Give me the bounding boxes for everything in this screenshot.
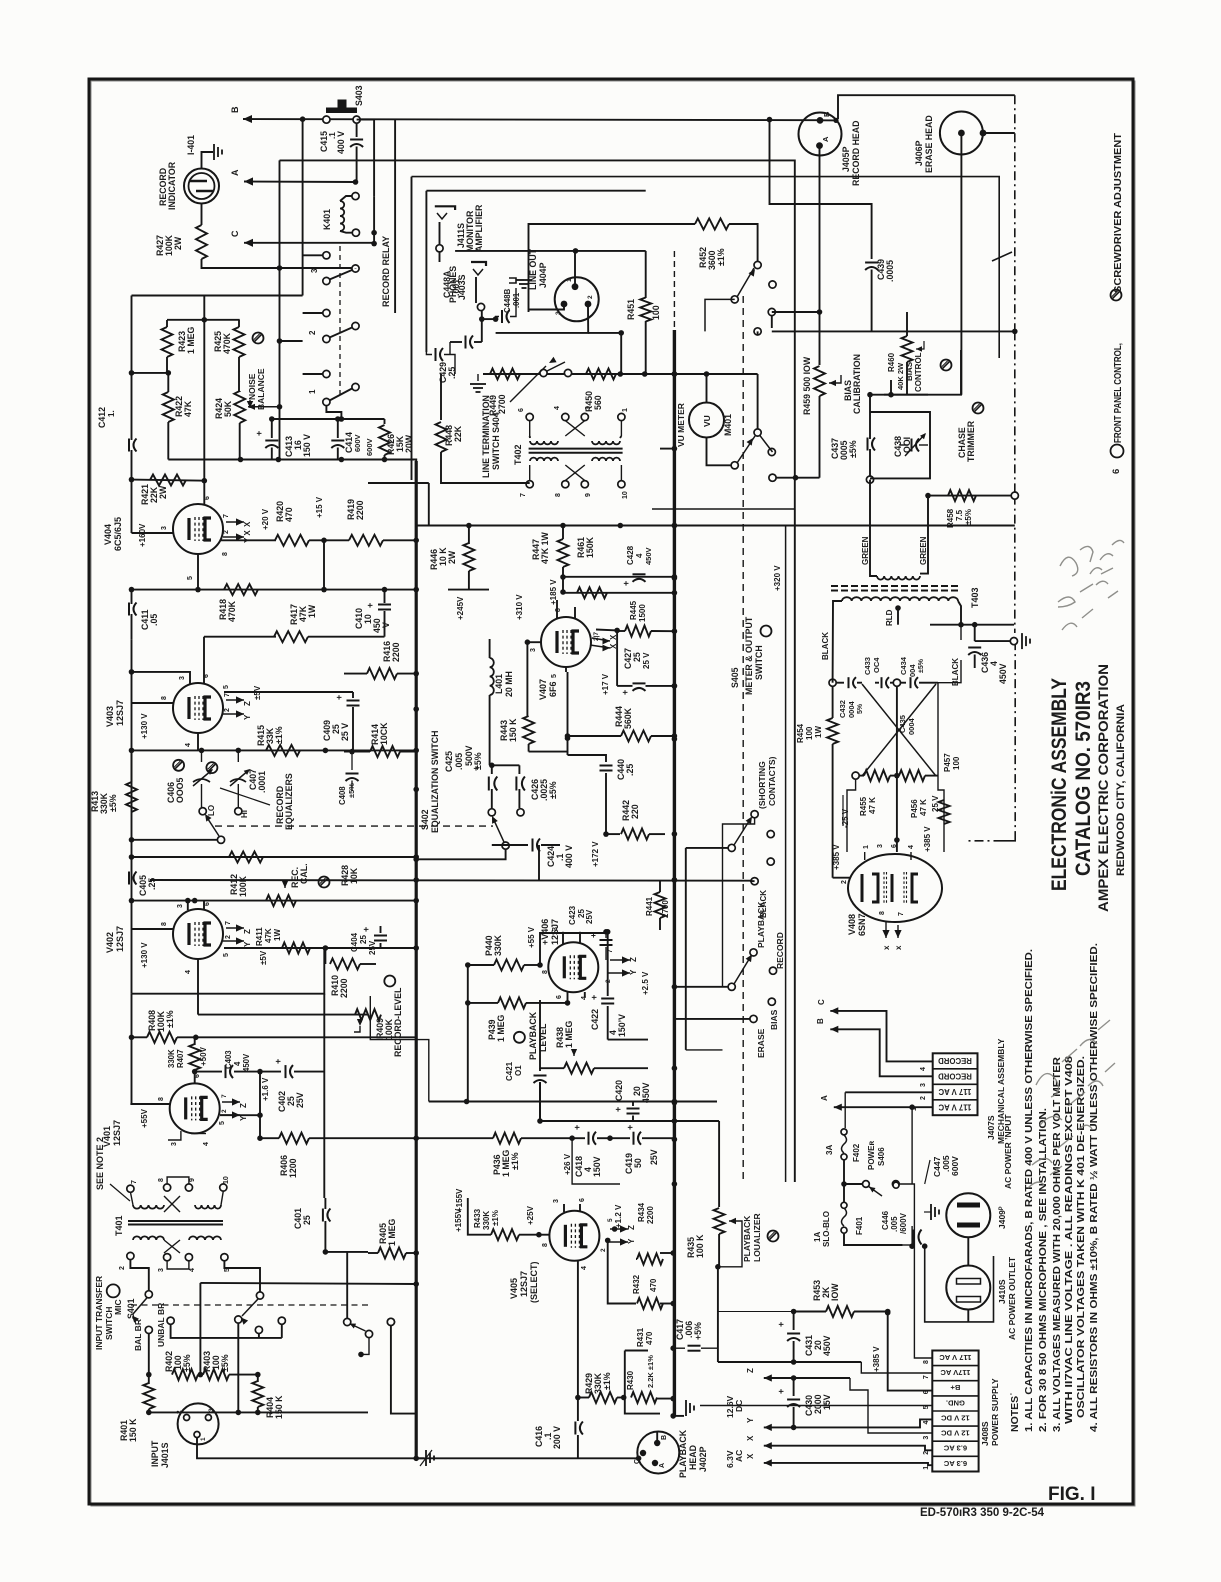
svg-text:5: 5 [187, 576, 194, 580]
screened enclosure dash-dot long vertical [1014, 496, 1016, 633]
svg-text:REDWOOD CITY, CALIFORNIA: REDWOOD CITY, CALIFORNIA [1115, 704, 1127, 876]
svg-text:150 K: 150 K [274, 1395, 284, 1419]
S405 wafer2 contacts [750, 949, 757, 956]
svg-text:117V AC: 117V AC [940, 1368, 971, 1377]
svg-text:12 V DC: 12 V DC [941, 1414, 970, 1423]
svg-text:+172 V: +172 V [591, 841, 600, 867]
wire rail y176 enclosure [412, 177, 1000, 358]
svg-text:Z: Z [243, 929, 252, 934]
ground [213, 144, 215, 160]
capacitor C423 25 25V [603, 929, 609, 935]
resistor R416 2200 [367, 668, 397, 679]
ground osc [1010, 638, 1017, 645]
capacitor C411 .05 [131, 590, 133, 604]
wire cathode to C440 [568, 755, 607, 762]
wire pin6 branch [194, 1072, 196, 1083]
svg-text:+1.6 V: +1.6 V [261, 1077, 270, 1101]
svg-text:/600V: /600V [899, 1212, 908, 1234]
svg-text:330K: 330K [167, 1049, 176, 1068]
svg-text:450V: 450V [641, 1082, 651, 1103]
T402 contacts bottom [526, 481, 533, 488]
wire x617 down [616, 630, 618, 686]
svg-text:12SJ7: 12SJ7 [115, 700, 125, 726]
dashed divider S402 [215, 825, 493, 827]
capacitor C422 4 150V [607, 933, 609, 996]
svg-text:+155V: +155V [454, 1208, 463, 1232]
svg-text:Z: Z [629, 957, 638, 962]
svg-text:12SJ7: 12SJ7 [112, 1120, 122, 1146]
svg-text:V408: V408 [847, 914, 857, 935]
wire J405P case [836, 119, 838, 121]
switch S404 contacts [540, 369, 547, 376]
svg-text:6: 6 [518, 408, 525, 412]
wire V402 grid pin8 [131, 901, 133, 994]
wire fuse F402 branch [844, 1092, 846, 1128]
T401 lower contacts [127, 1252, 134, 1259]
svg-text:.25: .25 [625, 764, 635, 776]
wire V404 plate top [203, 481, 205, 505]
wire J404P pin2 [496, 307, 589, 333]
svg-text:4: 4 [554, 406, 561, 410]
svg-text:2: 2 [119, 1266, 126, 1270]
svg-text:A: A [820, 1095, 829, 1101]
svg-text:150 K: 150 K [128, 1418, 138, 1442]
svg-text:+: + [471, 766, 481, 771]
svg-text:HEAD: HEAD [688, 1445, 698, 1470]
switch S403 pushbutton [326, 108, 357, 114]
capacitor C439 .0005 [865, 262, 878, 264]
resistor R426 15K 20W [384, 419, 386, 424]
svg-text:K401: K401 [322, 209, 332, 230]
svg-text:20 MH: 20 MH [504, 671, 514, 697]
svg-text:I-401: I-401 [186, 135, 196, 155]
svg-text:7.5: 7.5 [955, 509, 964, 521]
svg-text:C404: C404 [350, 932, 359, 952]
wire osc row y624 [930, 624, 1014, 626]
resistor R419 2200 [349, 535, 383, 546]
capacitor C420 20 450V [632, 1102, 634, 1107]
svg-text:.25: .25 [447, 367, 457, 379]
wire V403 pin5 [224, 691, 353, 693]
svg-text:R434: R434 [637, 1202, 646, 1222]
svg-text:±5V: ±5V [253, 685, 262, 700]
svg-text:METER & OUTPUT: METER & OUTPUT [744, 616, 754, 695]
svg-text:220: 220 [630, 804, 640, 819]
svg-text:+55 V: +55 V [527, 926, 536, 948]
svg-text:117 V AC: 117 V AC [938, 1103, 971, 1112]
svg-text:V403: V403 [105, 706, 115, 727]
svg-text:R431: R431 [636, 1327, 645, 1347]
svg-text:1: 1 [308, 389, 317, 394]
svg-text:3: 3 [552, 927, 559, 931]
svg-text:+: + [589, 995, 599, 1000]
svg-text:3: 3 [877, 844, 884, 848]
resistor R442 220 [621, 829, 649, 840]
svg-text:X: X [746, 1453, 755, 1459]
S402 switch arm [502, 842, 509, 849]
svg-text:1: 1 [566, 278, 573, 282]
svg-text:R454: R454 [796, 723, 805, 743]
svg-text:R459 500 IOW: R459 500 IOW [802, 356, 812, 415]
resistor R406 1200 [279, 1133, 309, 1144]
svg-text:ELECTRONiC ASSEMBLY: ELECTRONiC ASSEMBLY [1047, 678, 1071, 891]
svg-text:TRIMMER: TRIMMER [966, 420, 976, 462]
svg-text:3: 3 [177, 904, 184, 908]
resistor R403 100 5% [203, 1369, 229, 1380]
svg-text:25V: 25V [585, 909, 594, 924]
svg-text:470: 470 [649, 1278, 658, 1292]
wire J404P pin3 [529, 307, 565, 310]
inductor L401 20MH [489, 639, 491, 658]
node B arrow [243, 115, 252, 123]
resistor R404 150K [257, 1375, 259, 1382]
svg-text:C448B: C448B [503, 288, 512, 313]
svg-text:LO: LO [207, 805, 216, 816]
svg-text:SWITCH S404: SWITCH S404 [491, 412, 501, 470]
capacitor C432 0004 [836, 682, 844, 684]
wire left rail x131 [131, 640, 133, 901]
resistor R457 100 [939, 800, 950, 824]
svg-text:10: 10 [223, 1176, 230, 1184]
svg-text:RECORD-LEVEL: RECORD-LEVEL [393, 987, 403, 1057]
connector J401S input [178, 1403, 219, 1444]
node C arrow [244, 239, 253, 247]
T401 core [128, 1220, 223, 1222]
connector J405P record head [799, 113, 842, 156]
svg-text:.0005: .0005 [885, 260, 895, 282]
svg-text:C: C [230, 230, 240, 237]
svg-text:R430: R430 [626, 1370, 635, 1390]
wire x260 cathode net [259, 1072, 261, 1139]
svg-text:T402: T402 [513, 444, 523, 465]
svg-text:+: + [334, 695, 344, 700]
screwdriver adj noise balance [253, 333, 264, 344]
capacitor C419 50 25V [633, 1132, 635, 1145]
wire green winding [920, 496, 928, 574]
wire V403 pin6 top [203, 637, 205, 683]
capacitor C410 10 450V [384, 590, 386, 603]
svg-text:47 K: 47 K [919, 799, 928, 816]
wire V403 pin3 top [132, 672, 191, 684]
svg-text:3: 3 [585, 406, 592, 410]
svg-text:+: + [365, 603, 375, 608]
wire bottom rail to head [636, 1456, 642, 1462]
T402 bottom crossing [565, 465, 585, 481]
wire y880 long rail [150, 879, 755, 882]
wire y1037 to right [196, 1036, 416, 1038]
svg-text:6: 6 [194, 1074, 201, 1078]
svg-text:J404P: J404P [538, 262, 548, 288]
resistor R408 100K 1% [147, 1032, 177, 1043]
wire ground rail y1412 [149, 1411, 368, 1413]
svg-text:CALIBRATION: CALIBRATION [852, 354, 862, 414]
resistor R413 330K 5% [131, 750, 133, 782]
svg-text:Z: Z [243, 701, 252, 706]
meter M401 VU [689, 403, 724, 438]
capacitor C448A .001 [481, 311, 483, 342]
svg-text:5: 5 [223, 685, 230, 689]
wire RLD tap [895, 605, 901, 611]
svg-text:10CK: 10CK [379, 722, 389, 745]
svg-text:6: 6 [204, 902, 211, 906]
T403 core dashed [831, 585, 961, 587]
svg-text:25: 25 [632, 652, 642, 662]
resistor R440 330K [494, 960, 524, 971]
svg-text:+310 V: +310 V [515, 594, 524, 620]
svg-text:8: 8 [555, 493, 562, 497]
svg-text:2: 2 [224, 708, 231, 712]
svg-text:+17 V: +17 V [601, 673, 610, 695]
svg-text:C: C [817, 999, 826, 1005]
wire rail y190 inner box [426, 190, 645, 192]
svg-text:M401: M401 [723, 414, 733, 436]
svg-text:+385 V: +385 V [832, 844, 841, 870]
svg-text:AC POWER OUTLET: AC POWER OUTLET [1007, 1256, 1017, 1340]
wire meter VU [706, 374, 708, 403]
T401 lower crossing [164, 1240, 180, 1253]
capacitor C408 5% [351, 752, 353, 770]
svg-text:+15 V: +15 V [315, 496, 324, 518]
svg-text:FIG. I: FIG. I [1048, 1484, 1096, 1505]
resistor R427 100K 2W [201, 204, 203, 226]
svg-text:HI: HI [240, 810, 249, 818]
wire R450 to bus [616, 373, 674, 375]
svg-text:+: + [613, 1107, 623, 1112]
svg-text:ED-570ıR3 350 9-2C-54: ED-570ıR3 350 9-2C-54 [920, 1507, 1045, 1519]
svg-text:600V: 600V [950, 1156, 960, 1176]
svg-text:450V: 450V [644, 547, 653, 565]
resistor R414 100K [370, 746, 400, 757]
svg-text:INPUT: INPUT [150, 1440, 160, 1467]
svg-text:3: 3 [208, 1408, 215, 1412]
wire R453 left branch [718, 1311, 794, 1313]
svg-text:25 V: 25 V [642, 652, 651, 669]
svg-text:2700: 2700 [497, 394, 507, 414]
svg-text:UNBAL BR: UNBAL BR [156, 1303, 166, 1347]
capacitor C434 004 [900, 682, 906, 684]
svg-text:1500: 1500 [638, 604, 647, 622]
T402 lower coils [530, 458, 558, 461]
wire vertical feed [302, 119, 304, 295]
svg-text:150V: 150V [592, 1156, 602, 1177]
svg-text:1: 1 [200, 1437, 207, 1441]
svg-text:2: 2 [841, 880, 848, 884]
outlet box [925, 1245, 994, 1322]
wire V405 top pins [563, 1204, 565, 1212]
svg-text:C446: C446 [881, 1210, 890, 1230]
svg-text:Y: Y [629, 969, 638, 975]
svg-text:±5%: ±5% [964, 509, 973, 525]
capacitor C426 .0025 5% [492, 764, 520, 766]
capacitor C412 1 [131, 296, 133, 441]
wire R460 bias control box [890, 380, 892, 395]
svg-text:2: 2 [221, 1109, 228, 1113]
tube V405 12SJ7 select [549, 1211, 599, 1261]
svg-text:±5V: ±5V [259, 950, 268, 965]
svg-text:2.2K ±1%: 2.2K ±1% [646, 1355, 655, 1388]
svg-text:2: 2 [223, 530, 230, 534]
svg-text:±5%: ±5% [548, 781, 558, 799]
svg-text:6: 6 [204, 496, 211, 500]
svg-text:J410S: J410S [997, 1279, 1007, 1304]
playback equalizer R435 [718, 1198, 720, 1207]
capacitor C427 25 25V [617, 685, 632, 687]
svg-text:3. ALL VOLTAGES MEASURED WITH: 3. ALL VOLTAGES MEASURED WITH 20,000 OHM… [1052, 1057, 1063, 1432]
svg-text:F401: F401 [855, 1216, 864, 1235]
svg-text:12SJ7: 12SJ7 [519, 1271, 529, 1297]
svg-text:25: 25 [302, 1215, 312, 1225]
resistor R444 560K [565, 733, 571, 739]
resistor R412 100K [229, 852, 263, 863]
thick bus vertical x674 [673, 330, 676, 1416]
svg-text:+: + [254, 431, 264, 436]
thick bus x416 [415, 461, 418, 1458]
resistor R450 560 [586, 369, 616, 380]
svg-text:Y: Y [746, 1417, 755, 1423]
svg-text:8: 8 [555, 608, 562, 612]
svg-text:ERASE HEAD: ERASE HEAD [924, 115, 934, 173]
svg-text:Y: Y [243, 714, 252, 720]
trimmer C406 0005 LO [173, 760, 184, 771]
resistor R430 2.2K 1% [631, 1392, 657, 1403]
meter switch arm [737, 436, 755, 463]
bias selector contacts [754, 261, 761, 268]
svg-text:BIAS: BIAS [769, 1009, 779, 1030]
capacitor C418 4 150V [588, 1132, 590, 1145]
svg-text:J401S: J401S [160, 1442, 170, 1468]
resistor R402 100 5% [172, 1369, 198, 1380]
svg-text:VU: VU [702, 415, 712, 427]
svg-text:R433: R433 [473, 1208, 482, 1228]
wire line-out feed [455, 250, 646, 252]
svg-text:+130 V: +130 V [140, 713, 149, 739]
svg-text:RECORD: RECORD [775, 932, 785, 969]
wire erase head down [960, 133, 962, 395]
wire S406 to pin8 [899, 1184, 932, 1358]
wire record head A line [819, 146, 821, 365]
jack J403S phones [471, 262, 486, 266]
svg-text:47 K: 47 K [868, 797, 877, 814]
fuse F402 3A [841, 1129, 847, 1135]
resistor R458 7.5 5% [948, 490, 976, 501]
svg-text:±5%: ±5% [108, 794, 118, 812]
svg-text:5: 5 [223, 953, 230, 957]
svg-text:WITH II7VAC LINE VOLTAGE .: WITH II7VAC LINE VOLTAGE . ALL READINGS … [1064, 1055, 1075, 1424]
svg-text:Z: Z [239, 1103, 248, 1108]
svg-text:150K: 150K [585, 536, 595, 558]
svg-text:6F6: 6F6 [548, 681, 558, 697]
svg-text:.001: .001 [451, 279, 461, 296]
svg-text:+: + [572, 1125, 582, 1130]
V406 pins top [562, 932, 564, 944]
svg-text:10: 10 [622, 491, 629, 499]
wire selector lower [768, 448, 775, 455]
wire y857 rail R412 [132, 856, 417, 858]
wire head box [838, 95, 1015, 119]
svg-text:3: 3 [923, 1436, 930, 1440]
svg-text:1.: 1. [107, 410, 116, 417]
svg-text:7: 7 [224, 693, 231, 697]
svg-text:SWITCH: SWITCH [754, 645, 764, 680]
ground on rail [477, 374, 479, 381]
svg-text:BAL BR: BAL BR [133, 1319, 143, 1351]
resistor R449 2700 [490, 369, 520, 380]
svg-text:T401: T401 [114, 1215, 124, 1236]
svg-text:450V: 450V [998, 663, 1008, 684]
svg-text:4: 4 [923, 1421, 930, 1425]
wire V401 pins 3-4 [168, 1131, 181, 1140]
resistor R455 47K [852, 772, 859, 779]
svg-text:EQUALIZATION SWITCH: EQUALIZATION SWITCH [430, 731, 440, 833]
V404 heater arrows [236, 518, 244, 525]
svg-text:+: + [588, 933, 598, 938]
resistor R420 470 [275, 535, 309, 546]
wire x347 [346, 1252, 348, 1319]
V401 heater arrows [232, 1098, 240, 1105]
screened enclosure dash-dot right [1014, 95, 1016, 331]
svg-text:O1: O1 [514, 1065, 523, 1076]
svg-text:22K: 22K [453, 425, 463, 442]
wire y495 out [928, 495, 1011, 497]
wire C437 branch [869, 395, 871, 439]
svg-text:±5%: ±5% [220, 1354, 230, 1372]
svg-text:+: + [776, 1322, 786, 1327]
wire y459 rail [168, 459, 384, 461]
capacitor C429 .25 [426, 352, 432, 355]
svg-text:V402: V402 [105, 932, 115, 953]
svg-text:3: 3 [179, 676, 186, 680]
fuse F401 1A SLO-BLO [841, 1202, 847, 1208]
svg-text:117 V AC: 117 V AC [938, 1087, 971, 1096]
svg-text:R407: R407 [176, 1049, 185, 1068]
wire y341 stub [280, 340, 303, 342]
wire R435 top [718, 1121, 720, 1198]
wire V405 plate pin4 [577, 1261, 579, 1398]
wire strip 12vdc pin3 [850, 1378, 932, 1433]
svg-text:2200: 2200 [391, 642, 401, 662]
svg-text:OC4: OC4 [872, 657, 881, 673]
wire x467 column [467, 965, 469, 1102]
wire plate supply rail y525 [416, 483, 429, 526]
svg-text:FRONT PANEL CONTROL,: FRONT PANEL CONTROL, [1113, 343, 1124, 443]
svg-text:4: 4 [203, 1142, 210, 1146]
svg-text:1: 1 [911, 1107, 918, 1111]
resistor R447 47K 1W [562, 526, 564, 540]
wire screen dropping [323, 540, 325, 589]
wire monitor line [439, 252, 441, 262]
wire x539 branch [538, 845, 540, 880]
V407 heater arrows [603, 638, 611, 645]
wire V404 cathode bottom pin5 [197, 554, 199, 590]
capacitor C431 20 450V [793, 1312, 795, 1331]
wire pin2 net down [608, 1242, 636, 1304]
resistor R459 500 10W [819, 360, 821, 365]
wire R448 branch [441, 460, 530, 484]
box record level [370, 996, 429, 1102]
svg-text:C423: C423 [568, 905, 577, 925]
switch S401 input transfer [107, 1284, 120, 1297]
svg-text:±5%: ±5% [347, 783, 356, 798]
wire contact2 to switch [130, 1260, 148, 1291]
svg-text:BLACK: BLACK [951, 658, 960, 686]
svg-text:OSCILLATOR VOLTAGES TAKEN: OSCILLATOR VOLTAGES TAKEN WITH K 401 DE-… [1076, 1056, 1087, 1418]
svg-text:CONTACTS): CONTACTS) [767, 756, 777, 806]
resistor R452 3600 1% [529, 224, 696, 312]
svg-text:J406P: J406P [914, 140, 924, 166]
capacitor C428 4 450V [563, 576, 675, 578]
wire V401 grid pin8 [130, 1103, 170, 1105]
svg-text:MIC: MIC [113, 1299, 123, 1315]
